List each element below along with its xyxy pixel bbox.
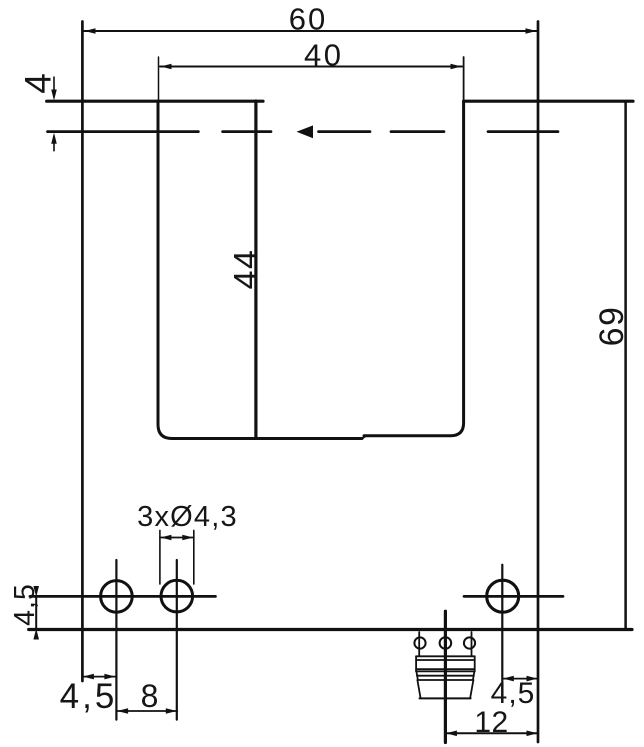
svg-text:60: 60	[289, 2, 327, 37]
svg-text:12: 12	[474, 706, 508, 739]
svg-text:44: 44	[228, 249, 266, 290]
svg-text:4,5: 4,5	[9, 583, 41, 626]
svg-text:4: 4	[18, 73, 59, 94]
svg-text:8: 8	[141, 678, 159, 714]
svg-text:3xØ4,3: 3xØ4,3	[137, 501, 238, 533]
svg-text:40: 40	[304, 38, 343, 73]
svg-text:69: 69	[593, 306, 631, 347]
svg-text:4,5: 4,5	[60, 677, 118, 716]
